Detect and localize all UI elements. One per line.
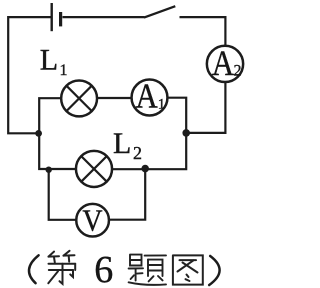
switch S	[144, 6, 175, 17]
lamp L2	[76, 151, 112, 187]
svg-text:L: L	[113, 127, 131, 160]
label L1	[40, 43, 68, 79]
wire battery to switch hinge	[63, 16, 145, 18]
caption character Di (第)	[48, 251, 75, 284]
wire top-left and left side to node A	[8, 17, 51, 133]
caption character Tu (图)	[173, 255, 203, 284]
node A junction dot	[35, 130, 42, 137]
svg-text:1: 1	[60, 62, 68, 79]
wire A1 to L1	[96, 97, 133, 99]
wire node B up and left to A1	[167, 98, 186, 133]
wire A2 bottom to node B	[188, 83, 225, 133]
caption closing parenthesis	[209, 256, 219, 285]
svg-text:V: V	[82, 204, 102, 238]
caption opening parenthesis	[29, 255, 39, 283]
node D junction dot	[46, 167, 52, 173]
lamp L1	[61, 80, 97, 116]
node B junction dot	[182, 129, 190, 137]
wire switch contact to top-right corner down to A2	[180, 17, 226, 45]
svg-text:6: 6	[94, 249, 113, 288]
caption character Ti (题)	[129, 255, 166, 285]
svg-text:2: 2	[234, 63, 242, 80]
svg-text:2: 2	[133, 143, 142, 163]
node C junction dot	[141, 165, 149, 173]
wire L1 left corner down to node A	[39, 98, 62, 133]
battery	[52, 3, 61, 31]
wire L2 right to corner up to node B	[112, 133, 187, 169]
voltmeter V	[76, 204, 109, 238]
svg-text:A: A	[135, 78, 157, 116]
wire node D down to voltmeter row	[49, 170, 78, 220]
ammeter A1	[132, 78, 168, 116]
wire node A down to L2 row	[39, 134, 76, 170]
wire voltmeter right corner up to node C	[108, 169, 146, 220]
ammeter A2	[207, 44, 243, 84]
svg-text:1: 1	[158, 97, 166, 113]
svg-text:A: A	[212, 44, 234, 84]
label L2	[113, 127, 142, 163]
svg-text:L: L	[40, 43, 58, 76]
